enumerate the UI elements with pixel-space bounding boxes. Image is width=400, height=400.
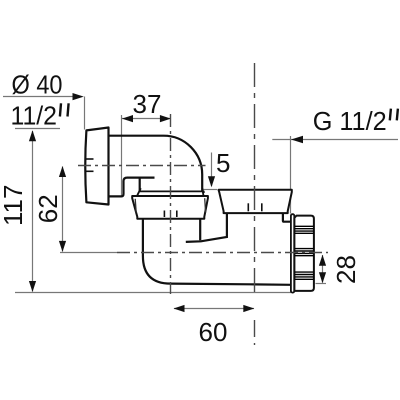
left nut inner edge right xyxy=(204,198,207,212)
117 top arrow xyxy=(29,130,36,141)
outlet horizontal centerline xyxy=(117,252,328,254)
Ø40 arrow xyxy=(73,93,84,100)
nut thread band bottom xyxy=(295,272,314,279)
G leader line xyxy=(272,139,398,141)
5 extension line xyxy=(204,189,218,191)
28 bottom arrow xyxy=(319,272,326,283)
inlet vertical centerline xyxy=(170,114,172,294)
internal connecting tube outline xyxy=(186,214,227,242)
28 dimension line xyxy=(322,255,324,283)
62 top arrow xyxy=(59,166,66,177)
svg-text:117: 117 xyxy=(0,185,28,226)
117 dimension line xyxy=(32,131,34,292)
62 / outlet centerline solid extension xyxy=(60,252,117,254)
G extension line xyxy=(290,136,292,214)
5 leader line xyxy=(211,153,213,187)
inlet flange xyxy=(85,128,108,205)
left nut rib 2 xyxy=(176,211,178,218)
5 down arrow xyxy=(208,176,215,187)
baseline extension line xyxy=(15,292,291,294)
60 left arrow xyxy=(174,305,185,312)
60 right arrow xyxy=(243,305,254,312)
collar left side xyxy=(137,188,141,195)
11/2" underline xyxy=(15,128,60,130)
117 bottom arrow xyxy=(29,281,36,292)
inch quote marks for G 11/2 xyxy=(390,109,398,121)
outlet-branch vertical centerline upper xyxy=(254,63,256,292)
37 right arrow xyxy=(160,115,171,122)
elbow outer profile xyxy=(109,136,205,193)
svg-text:37: 37 xyxy=(133,89,162,119)
svg-text:60: 60 xyxy=(199,317,228,347)
outlet nut body xyxy=(294,216,314,291)
collar mid line xyxy=(139,190,204,192)
left nut rib 1 xyxy=(163,211,165,218)
Ø40 extension line xyxy=(84,97,86,130)
62 dimension line xyxy=(62,167,64,252)
outlet-branch vertical centerline lower xyxy=(254,320,256,345)
pipe underside / inner elbow step xyxy=(109,178,155,197)
37 extension line xyxy=(121,115,123,196)
inlet branch right wall xyxy=(199,219,201,241)
svg-text:11/2: 11/2 xyxy=(11,100,58,130)
svg-text:62: 62 xyxy=(33,194,63,223)
right cup nut xyxy=(219,190,292,213)
right cup rib 2 xyxy=(261,203,263,211)
svg-text:G 11/2: G 11/2 xyxy=(313,106,387,136)
collar right side xyxy=(202,188,203,195)
nut thread band top xyxy=(295,226,314,233)
28 bottom extension line xyxy=(316,283,327,285)
28 top arrow xyxy=(319,255,326,266)
svg-text:Ø 40: Ø 40 xyxy=(12,69,63,99)
right cup neck right wall / outlet top step xyxy=(283,213,291,222)
left slip nut xyxy=(132,196,208,219)
inlet horizontal centerline xyxy=(78,165,206,167)
flange tick upper xyxy=(86,158,94,160)
elbow tube left wall xyxy=(139,178,141,192)
37 dimension line xyxy=(122,118,171,120)
svg-text:28: 28 xyxy=(331,255,361,284)
62 bottom arrow xyxy=(59,241,66,252)
outlet washer flange xyxy=(291,214,294,292)
inch quote marks for 11/2 xyxy=(60,103,69,116)
right cup rib 1 xyxy=(247,203,249,211)
60 dimension line xyxy=(174,308,254,310)
svg-text:5: 5 xyxy=(216,148,230,178)
Ø40 leader line xyxy=(3,96,82,98)
flange tick lower xyxy=(86,170,94,172)
37 left arrow xyxy=(122,115,133,122)
trap body left wall and bottom xyxy=(143,219,291,285)
G leader arrow xyxy=(291,136,303,144)
left nut inner edge left xyxy=(135,199,136,213)
nut thread band middle xyxy=(295,249,314,256)
